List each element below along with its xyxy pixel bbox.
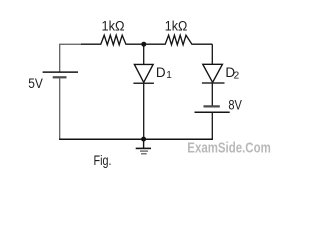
label 1kΩ (R1 value) — [102, 19, 125, 34]
label 1kΩ (R2 value) — [165, 19, 188, 34]
svg-text:8V: 8V — [228, 97, 242, 113]
watermark ExamSide.Com — [187, 140, 270, 156]
diode D2 triangle — [203, 64, 223, 82]
wire: D2 branch from top-right corner down to D2 anode — [211, 44, 213, 64]
svg-text:D: D — [156, 65, 166, 80]
diode D2 cathode bar — [202, 82, 225, 84]
wire: D1 cathode down to bottom rail — [143, 83, 145, 139]
resistor R1 (1kΩ) — [81, 35, 144, 45]
node: junction of bottom rail and ground — [141, 137, 146, 142]
battery 5V short plate (-) — [53, 76, 67, 78]
node: junction of R1, R2 and D1 — [141, 42, 146, 47]
label Fig. — [94, 152, 112, 168]
svg-text:1kΩ: 1kΩ — [165, 19, 188, 34]
battery 5V long plate (+) — [43, 71, 78, 73]
label D2 — [225, 65, 239, 81]
battery 8V long plate (+) — [195, 111, 230, 113]
label 5V — [28, 76, 43, 91]
wire: junction down to D1 anode — [143, 44, 145, 64]
svg-text:1kΩ: 1kΩ — [102, 19, 125, 34]
wire: left vertical from 5V battery down to bottom rail — [59, 77, 61, 139]
label D1 — [156, 65, 172, 81]
svg-text:ExamSide.Com: ExamSide.Com — [187, 140, 270, 156]
wire: top-left horizontal from corner to R1 — [60, 44, 81, 72]
svg-text:1: 1 — [166, 70, 172, 81]
svg-text:5V: 5V — [28, 76, 43, 91]
battery 8V short plate (-) — [204, 105, 220, 107]
wire: 8V battery down to bottom rail — [211, 112, 213, 139]
label 8V — [228, 97, 242, 113]
svg-text:Fig.: Fig. — [94, 152, 112, 168]
diode D1 cathode bar — [133, 82, 154, 84]
svg-text:2: 2 — [234, 70, 240, 81]
wire: D2 cathode down to 8V battery — [211, 83, 213, 106]
resistor R2 (1kΩ) — [144, 35, 213, 45]
ground — [136, 139, 151, 154]
wire: bottom rail — [59, 138, 213, 140]
diode D1 triangle — [134, 64, 153, 82]
